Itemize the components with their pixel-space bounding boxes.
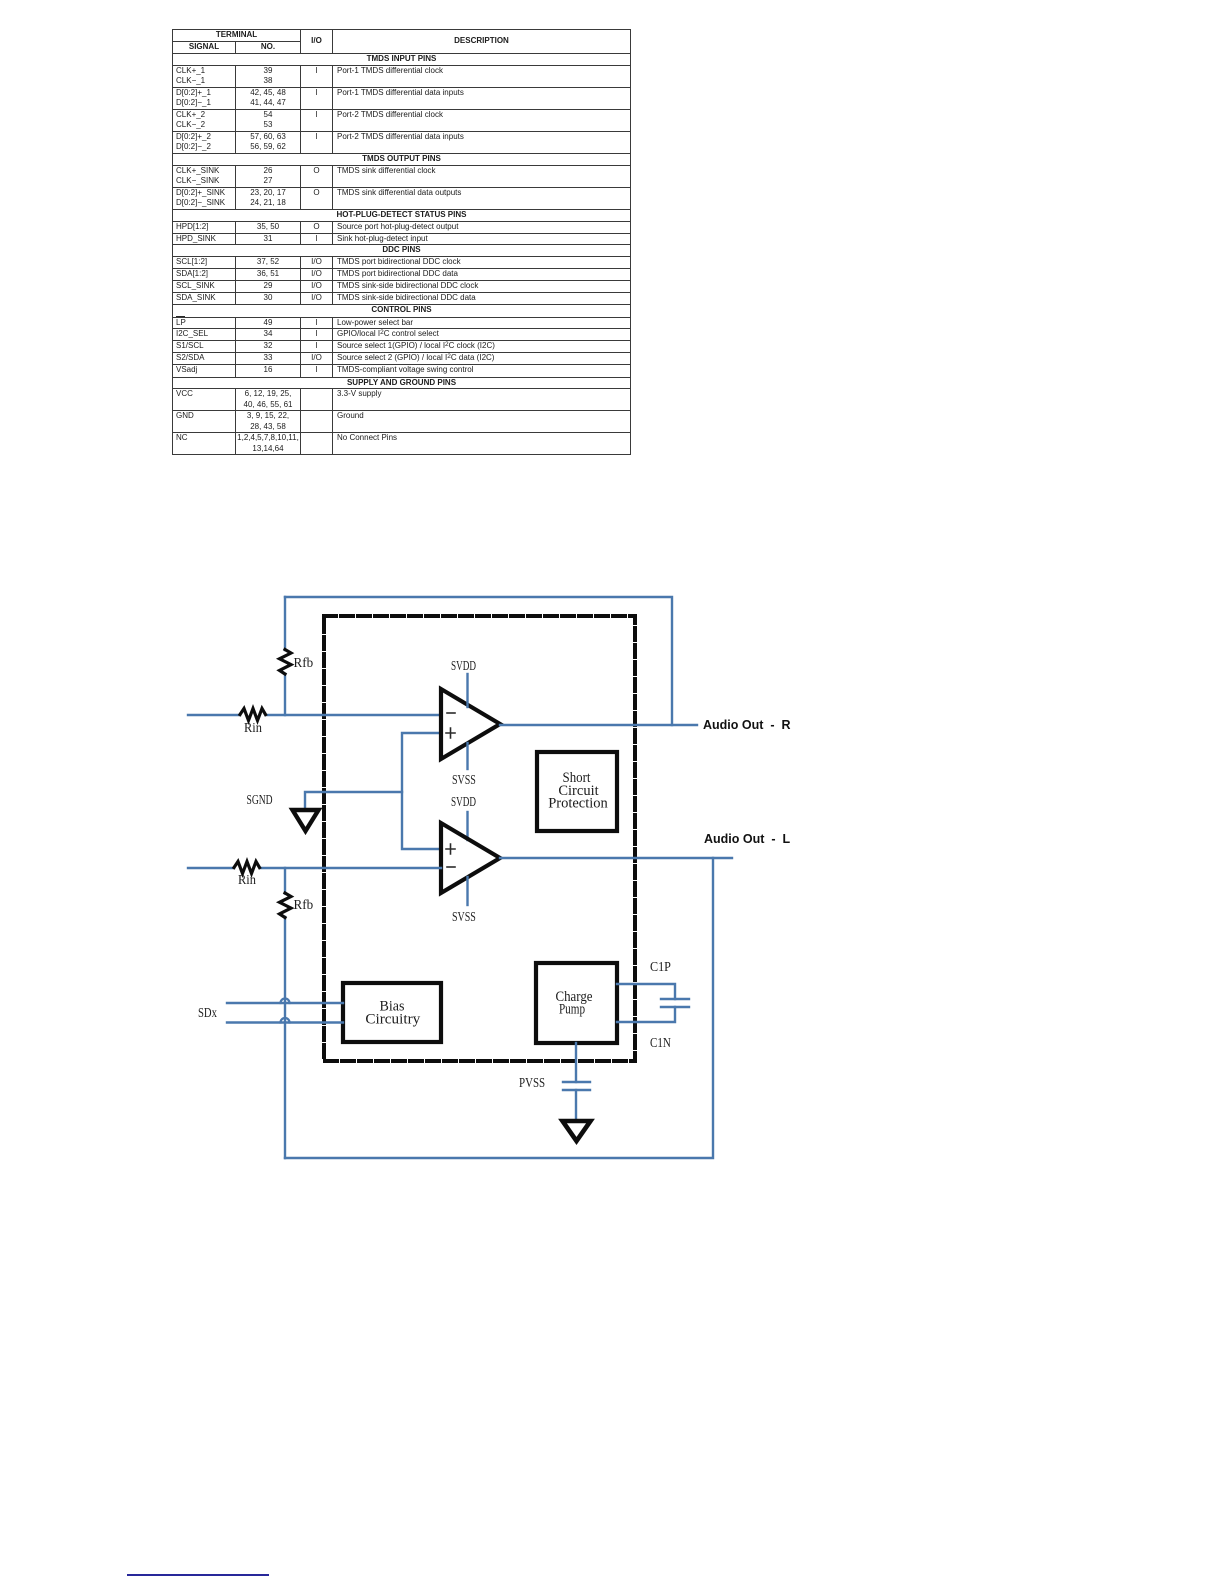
wire: R-channel feedback top	[285, 597, 672, 725]
label charge pump	[555, 988, 592, 1017]
label short circuit protection	[548, 769, 608, 811]
svg-text:Pump: Pump	[559, 1000, 585, 1017]
IC boundary dashed box	[324, 616, 635, 1061]
op-amp U1 (right channel)	[441, 689, 500, 759]
op-amp U2 (left channel)	[441, 823, 500, 893]
op-amp U1 minus sign	[447, 712, 455, 714]
svg-text:Rin: Rin	[244, 720, 262, 736]
svg-text:SDx: SDx	[198, 1005, 217, 1021]
svg-text:C1N: C1N	[650, 1035, 671, 1050]
svg-text:SVSS: SVSS	[452, 771, 476, 787]
LP overline mark	[176, 316, 185, 317]
svg-text:Circuitry: Circuitry	[365, 1012, 421, 1028]
short circuit protection block	[537, 752, 617, 831]
wire: SVSS stub op2	[466, 877, 468, 905]
wire: SVDD stub op2	[466, 812, 468, 840]
resistor Rin (top)	[240, 709, 266, 721]
wire: C1 bottom to charge pump	[617, 1007, 675, 1022]
wire: SDx lower	[227, 1021, 343, 1023]
svg-text:C1P: C1P	[650, 959, 671, 974]
wire: SGND branch	[305, 792, 402, 808]
wire: Rfb top vertical	[284, 597, 286, 715]
wire: op2 output to Audio Out L	[500, 857, 732, 859]
svg-text:Rfb: Rfb	[294, 655, 314, 670]
op-amp U1 plus sign	[446, 728, 455, 738]
wire: op1 output to Audio Out R	[500, 724, 697, 726]
wire: SDx upper	[227, 1002, 343, 1004]
wire: SVSS stub op1	[466, 743, 468, 769]
label bias circuitry	[365, 998, 421, 1027]
op-amp U2 minus sign	[447, 866, 455, 868]
wire hop over SDx upper	[281, 999, 290, 1004]
op-amp U2 plus sign	[446, 844, 455, 854]
wire: right return line	[285, 858, 713, 1158]
wire: R input line	[188, 714, 441, 716]
footer rule	[127, 1574, 269, 1576]
resistor Rfb (bottom)	[280, 893, 292, 918]
svg-text:SVSS: SVSS	[452, 908, 476, 924]
charge pump block	[536, 963, 617, 1043]
bias circuitry block	[343, 983, 441, 1042]
wire: op1 + input	[402, 733, 441, 849]
capacitor PVSS	[563, 1082, 590, 1090]
resistor Rfb (top)	[280, 650, 292, 675]
wire: SVDD stub op1	[466, 674, 468, 707]
svg-text:SVDD: SVDD	[451, 659, 476, 673]
wire hop over SDx lower	[281, 1018, 290, 1023]
wire: L input line	[188, 867, 441, 869]
wire: PVSS cap to ground	[575, 1090, 577, 1119]
svg-text:Rfb: Rfb	[294, 897, 314, 912]
pin description table	[172, 29, 631, 455]
ground symbol SGND	[293, 810, 319, 831]
wire: Rfb bottom vertical	[284, 868, 286, 1158]
svg-text:SVDD: SVDD	[451, 795, 476, 809]
svg-text:Audio Out - L: Audio Out - L	[704, 832, 790, 846]
svg-text:SGND: SGND	[247, 792, 273, 807]
svg-text:PVSS: PVSS	[519, 1075, 545, 1090]
wire: charge pump to C1 top	[617, 984, 675, 999]
svg-text:Rin: Rin	[238, 872, 256, 888]
ground symbol PVSS	[563, 1121, 591, 1141]
svg-text:Audio Out - R: Audio Out - R	[703, 718, 790, 732]
resistor Rin (bottom)	[234, 862, 260, 874]
svg-text:Protection: Protection	[548, 796, 608, 812]
capacitor C1	[661, 999, 689, 1007]
wire: charge pump to PVSS cap	[575, 1043, 577, 1082]
